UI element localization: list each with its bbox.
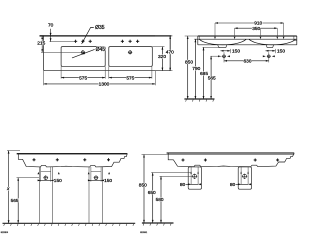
- svg-text:650: 650: [148, 190, 156, 196]
- svg-text:80: 80: [180, 182, 186, 188]
- svg-text:150: 150: [232, 49, 240, 55]
- svg-text:580: 580: [156, 197, 164, 203]
- svg-text:630: 630: [243, 59, 251, 65]
- svg-text:80: 80: [230, 182, 236, 188]
- svg-text:215: 215: [37, 40, 45, 46]
- svg-text:150: 150: [104, 178, 112, 184]
- svg-text:575: 575: [79, 75, 87, 81]
- svg-text:470: 470: [166, 50, 174, 56]
- svg-text:565: 565: [11, 198, 19, 204]
- svg-text:8133D0: 8133D0: [1, 232, 9, 234]
- svg-text:575: 575: [126, 75, 134, 81]
- svg-text:1300: 1300: [99, 82, 110, 88]
- svg-text:565: 565: [208, 75, 216, 81]
- svg-text:150: 150: [54, 178, 62, 184]
- svg-text:x: x: [6, 187, 10, 192]
- svg-text:350: 350: [252, 26, 260, 32]
- svg-text:850: 850: [139, 183, 147, 189]
- svg-text:813361: 813361: [140, 232, 148, 234]
- svg-text:150: 150: [277, 49, 285, 55]
- svg-text:70: 70: [48, 23, 54, 29]
- svg-text:910: 910: [254, 21, 262, 27]
- svg-text:850: 850: [185, 59, 193, 65]
- svg-text:Ø35: Ø35: [95, 25, 105, 31]
- svg-text:Ø45: Ø45: [96, 47, 106, 53]
